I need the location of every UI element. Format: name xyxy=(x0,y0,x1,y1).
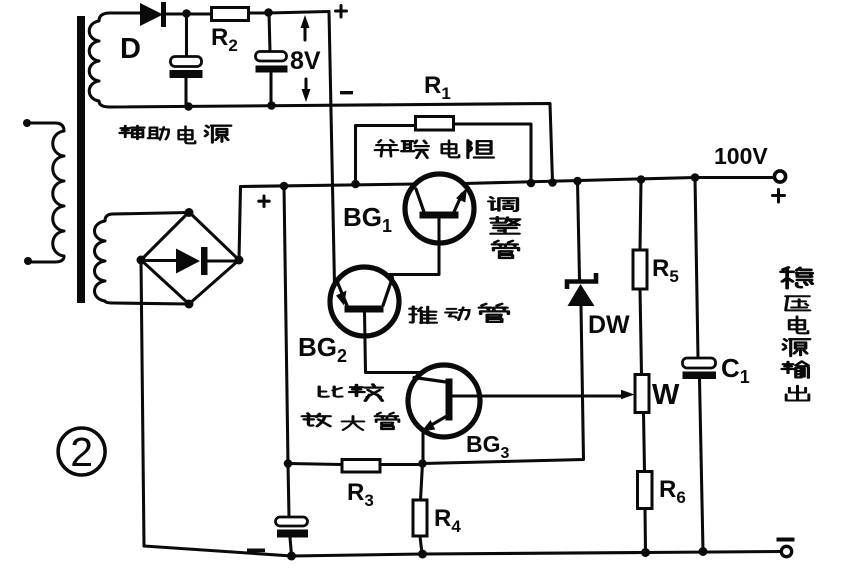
potentiometer W body xyxy=(635,375,649,413)
resistor R5 body xyxy=(633,250,647,289)
wire filter cap bottom lead xyxy=(290,538,292,556)
label fangdaguan (amplifier tube) xyxy=(302,413,330,426)
wire R1 right lead xyxy=(454,124,532,183)
svg-text:R5: R5 xyxy=(652,255,679,286)
svg-text:W: W xyxy=(652,379,680,411)
wire R3 left lead xyxy=(288,464,342,465)
primary terminal dot bottom xyxy=(24,257,32,265)
svg-text:D: D xyxy=(120,33,141,65)
node aux minus feed xyxy=(548,178,557,187)
resistor R1 body xyxy=(416,117,454,131)
svg-text:C1: C1 xyxy=(721,353,750,387)
capacitor filter (bottom) xyxy=(276,517,308,526)
main rail right segment xyxy=(464,178,774,184)
transformer core xyxy=(77,16,85,303)
node BG3 emitter junction xyxy=(418,459,427,468)
capacitor aux C-right xyxy=(256,52,287,62)
bridge node top xyxy=(185,208,194,217)
node aux-b xyxy=(264,8,273,17)
wire DW anode down and left to BG3 emitter node xyxy=(423,306,584,464)
wire filter cap column xyxy=(284,186,289,517)
plus sign filter cap xyxy=(259,196,269,207)
bridge node right xyxy=(235,256,244,265)
wire BG3 base to potentiometer W xyxy=(453,394,623,397)
primary terminal dot top xyxy=(23,119,31,127)
figure number 2 (circled) xyxy=(58,428,105,475)
zener diode DW xyxy=(578,181,580,280)
wire BG2 base to BG3 collector xyxy=(365,313,421,373)
transistor BG1 xyxy=(405,174,474,243)
svg-text:DW: DW xyxy=(588,311,630,339)
node filter-cap top xyxy=(280,182,289,191)
wire diode to R2 xyxy=(166,12,212,15)
plus sign output xyxy=(773,190,785,203)
node R6 bottom xyxy=(641,548,650,557)
svg-text:100V: 100V xyxy=(714,143,768,169)
8V dimension arrow down xyxy=(304,79,307,95)
svg-text:8V: 8V xyxy=(290,47,321,75)
node aux-c xyxy=(184,102,193,111)
wire BG3 emitter down xyxy=(421,430,424,464)
node R1 left xyxy=(351,180,360,189)
svg-text:BG1: BG1 xyxy=(343,202,392,236)
diode D xyxy=(140,3,163,26)
resistor R6 body xyxy=(638,472,653,509)
bridge node left xyxy=(137,256,146,265)
wire winding to bridge bottom xyxy=(113,303,189,304)
bridge node bottom xyxy=(185,300,194,309)
transistor BG2 xyxy=(330,267,399,336)
transformer primary winding xyxy=(27,123,64,262)
capacitor C1 xyxy=(683,358,716,368)
node filter cap bottom xyxy=(287,552,296,561)
transformer secondary winding (main, bottom) xyxy=(95,214,114,303)
output terminal plus xyxy=(774,171,785,182)
node aux-a xyxy=(182,9,191,18)
node C1 bottom xyxy=(699,547,708,556)
svg-text:R3: R3 xyxy=(347,479,374,510)
label tuidongguan (driver tube) xyxy=(410,306,437,323)
svg-text:R2: R2 xyxy=(211,24,238,55)
node aux-d xyxy=(267,101,276,110)
node R4 bottom xyxy=(418,550,427,559)
wire aux top xyxy=(110,11,140,14)
wire BG1 base to BG2 collector xyxy=(389,219,439,275)
plus sign aux xyxy=(336,6,347,18)
aux bottom rail xyxy=(110,104,553,183)
svg-text:BG3: BG3 xyxy=(466,431,510,462)
label fuzhudianyuan (auxiliary supply) xyxy=(120,126,144,139)
wire R3 right lead xyxy=(380,463,423,466)
label wenya dianyuan shuchu (regulated supply output, vertical) xyxy=(781,267,812,288)
capacitor aux C-left xyxy=(171,57,202,67)
wire R5 top lead xyxy=(640,180,641,251)
bridge inner diode xyxy=(146,259,177,262)
minus sign aux xyxy=(340,91,353,94)
wire R5 to W xyxy=(640,289,642,375)
wire R1 left lead xyxy=(356,126,416,185)
svg-text:R4: R4 xyxy=(434,505,461,536)
label bijiao (compare) xyxy=(319,386,342,396)
capacitor aux C-right leads xyxy=(269,13,271,106)
wire C1 top lead xyxy=(695,178,698,359)
output terminal minus xyxy=(781,546,791,556)
bridge rectifier diamond xyxy=(141,212,239,304)
wire bridge left corner down to bottom rail xyxy=(141,260,144,546)
label binglian dianzu (shunt resistor) xyxy=(375,140,398,156)
wire aux plus drop to BG2 emitter xyxy=(329,12,335,286)
minus sign output xyxy=(777,538,795,542)
bottom rail xyxy=(144,546,781,556)
minus sign filter cap xyxy=(247,549,265,553)
resistor R2 body xyxy=(212,8,249,21)
resistor R4 body xyxy=(413,500,427,536)
transformer secondary winding (auxiliary, top) xyxy=(89,13,110,107)
wire R2 to corner xyxy=(249,12,330,14)
svg-text:R6: R6 xyxy=(659,476,686,507)
capacitor aux C-left leads xyxy=(184,14,188,107)
wire winding to bridge top xyxy=(113,213,189,215)
wire R4 top lead xyxy=(421,464,423,501)
svg-text:2: 2 xyxy=(70,429,93,475)
main rail left segment xyxy=(241,184,417,187)
wire R6 bottom lead xyxy=(643,509,647,553)
transistor BG3 xyxy=(408,365,480,437)
wire C1 bottom lead xyxy=(700,379,704,551)
svg-text:R1: R1 xyxy=(424,72,451,103)
wire R4 bottom lead xyxy=(420,536,422,554)
label tiaozhengguan (adjust tube, vertical) xyxy=(489,197,518,211)
node R1 right xyxy=(527,179,536,188)
wire W to R6 xyxy=(644,413,645,472)
resistor R3 body xyxy=(342,460,380,473)
node R3 left xyxy=(284,459,293,468)
node C1 top xyxy=(691,173,700,182)
node R5 top xyxy=(637,175,646,184)
node DW top xyxy=(573,177,582,186)
svg-text:BG2: BG2 xyxy=(298,332,347,366)
wire bridge right corner up to main rail xyxy=(239,187,241,261)
8V dimension arrow up xyxy=(303,21,306,40)
